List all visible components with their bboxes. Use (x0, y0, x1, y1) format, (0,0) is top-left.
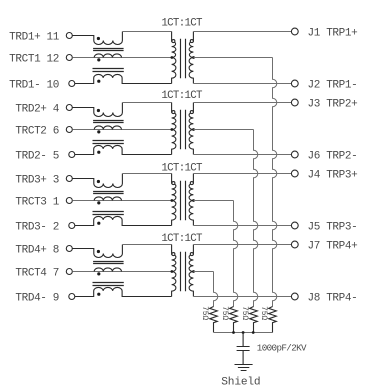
junction dot rail/R3 (252, 331, 255, 334)
phase dot choke winding a (97, 250, 100, 253)
choke core (lower pair) (93, 283, 124, 286)
node J2 terminal (291, 80, 298, 87)
phase dot choke winding a (97, 37, 100, 40)
terminal pin 1 (TRCT3) (66, 198, 72, 204)
wire TRD3+ pin to choke + choke winding a (TRD3+) (72, 174, 122, 188)
svg-text:J4 TRP3+: J4 TRP3+ (308, 170, 358, 182)
phase mark T4 primary (172, 253, 175, 256)
junction dot T4 primary centre tap (171, 270, 174, 273)
terminal pin 11 (TRD1+) (66, 33, 72, 39)
phase mark T1 secondary (190, 40, 193, 43)
svg-text:TRCT1 12: TRCT1 12 (9, 54, 59, 66)
wire termination bus rail (214, 332, 273, 334)
svg-text:TRD3- 2: TRD3- 2 (15, 222, 59, 234)
wire TRCT4 pin to transformer centre tap (72, 271, 171, 273)
junction dot T1 secondary centre tap (192, 56, 195, 59)
terminal pin 3 (TRD3+) (66, 176, 72, 182)
transformer T3 primary winding (172, 174, 176, 226)
resistor 75 ohm (ch2) (250, 307, 258, 333)
svg-text:J5 TRP3-: J5 TRP3- (308, 222, 358, 234)
terminal pin 10 (TRD1-) (69, 81, 75, 87)
svg-text:TRD4+ 8: TRD4+ 8 (15, 245, 59, 257)
terminal pin 6 (TRCT2) (66, 127, 72, 133)
choke core (lower pair) (93, 69, 124, 72)
phase dot choke winding b (97, 272, 100, 275)
transformer T4 primary winding (172, 245, 176, 297)
wire T4 secondary centre tap to termination bus (194, 271, 214, 273)
transformer T3 secondary winding (189, 174, 193, 226)
choke core (upper pair) (93, 121, 124, 123)
transformer T3 core (181, 181, 186, 221)
wire TRD1+ pin to choke + choke winding a (TRD1+) (72, 32, 122, 45)
wire centre-tap bus ch1 down to 75R resistor (with wire hops) (273, 58, 277, 307)
transformer T2 secondary winding (189, 103, 193, 155)
wire T1 secondary centre tap to termination bus (194, 57, 273, 59)
resistor 75 ohm (ch1) (269, 307, 277, 333)
phase dot choke winding c (97, 293, 100, 296)
choke winding b on TRCT3 line (94, 197, 121, 201)
wire centre-tap bus ch3 down to 75R resistor (with wire hops) (234, 201, 238, 307)
phase dot choke winding c (97, 222, 100, 225)
node J8 terminal (291, 293, 298, 300)
wire TRD4- pin to choke + choke winding c (TRD4-) (75, 287, 172, 296)
resistor 75 ohm (ch3) (230, 307, 238, 333)
phase dot choke winding c (97, 151, 100, 154)
phase mark T1 primary (172, 40, 175, 43)
phase mark T4 secondary (190, 253, 193, 256)
svg-text:TRCT3 1: TRCT3 1 (15, 197, 59, 209)
svg-text:TRD1+ 11: TRD1+ 11 (9, 32, 60, 44)
wire TRD3- pin to choke + choke winding c (TRD3-) (75, 216, 172, 225)
svg-text:75Ω: 75Ω (240, 306, 248, 320)
svg-text:1CT:1CT: 1CT:1CT (161, 163, 203, 175)
transformer T2 primary winding (172, 103, 176, 155)
svg-text:J8 TRP4-: J8 TRP4- (308, 293, 358, 305)
svg-text:75Ω: 75Ω (200, 306, 208, 320)
resistor 75 ohm (ch4) (210, 307, 218, 333)
svg-text:TRD3+ 3: TRD3+ 3 (15, 175, 59, 187)
wire TRCT2 pin to transformer centre tap (72, 129, 171, 131)
wire T2 secondary top to J3 (193, 102, 291, 104)
wire T3 secondary centre tap to termination bus (194, 200, 234, 202)
phase mark T3 secondary (190, 182, 193, 185)
transformer T1 secondary winding (189, 32, 193, 84)
wire T3 secondary top to J4 (193, 173, 291, 175)
phase dot choke winding a (97, 109, 100, 112)
svg-text:J3 TRP2+: J3 TRP2+ (308, 99, 358, 111)
svg-text:TRCT4 7: TRCT4 7 (15, 268, 59, 280)
choke core (upper pair) (93, 49, 124, 51)
svg-text:TRD1- 10: TRD1- 10 (9, 80, 59, 92)
wire T2 secondary centre tap to termination bus (194, 129, 254, 131)
svg-text:75Ω: 75Ω (259, 306, 267, 320)
wire top rail choke to transformer T2 primary (122, 102, 171, 104)
phase mark T3 primary (172, 182, 175, 185)
node J7 terminal (291, 241, 298, 248)
terminal pin 5 (TRD2-) (69, 152, 75, 158)
svg-text:TRCT2 6: TRCT2 6 (15, 126, 59, 138)
wire T1 secondary bottom to J2 (193, 83, 291, 85)
node J4 terminal (291, 170, 298, 177)
node J3 terminal (291, 99, 298, 106)
choke core (upper pair) (93, 192, 124, 194)
transformer T1 core (181, 39, 186, 79)
wire top rail choke to transformer T3 primary (122, 173, 171, 175)
transformer T2 core (181, 110, 186, 150)
wire T3 secondary bottom to J5 (193, 225, 291, 227)
junction dot T2 secondary centre tap (192, 128, 195, 131)
svg-text:Shield: Shield (221, 377, 260, 387)
choke core (lower pair) (93, 141, 124, 144)
terminal pin 9 (TRD4-) (69, 294, 75, 300)
junction dot rail/capacitor tap (242, 331, 245, 334)
svg-text:1000pF/2KV: 1000pF/2KV (257, 342, 307, 353)
terminal pin 4 (TRD2+) (66, 105, 72, 111)
svg-text:1CT:1CT: 1CT:1CT (161, 18, 203, 30)
wire centre-tap bus ch2 down to 75R resistor (with wire hops) (254, 130, 258, 307)
svg-text:1CT:1CT: 1CT:1CT (161, 233, 203, 245)
wire T1 secondary top to J1 (193, 31, 291, 33)
junction dot rail/R2 (232, 331, 235, 334)
terminal pin 2 (TRD3-) (69, 223, 75, 229)
phase dot choke winding c (97, 80, 100, 83)
svg-text:1CT:1CT: 1CT:1CT (161, 90, 203, 102)
junction dot T2 primary centre tap (171, 128, 174, 131)
wire top rail choke to transformer T4 primary (122, 244, 171, 246)
phase dot choke winding b (97, 201, 100, 204)
node J1 terminal (291, 28, 298, 35)
junction dot T3 secondary centre tap (192, 199, 195, 202)
choke winding b on TRCT4 line (94, 268, 121, 272)
svg-text:J7 TRP4+: J7 TRP4+ (308, 241, 358, 253)
choke core (lower pair) (93, 212, 124, 215)
wire TRD1- pin to choke + choke winding c (TRD1-) (75, 74, 172, 83)
svg-text:J6 TRP2-: J6 TRP2- (308, 151, 358, 163)
junction dot T3 primary centre tap (171, 199, 174, 202)
node J6 terminal (291, 151, 298, 158)
phase dot choke winding a (97, 180, 100, 183)
phase dot choke winding b (97, 130, 100, 133)
svg-text:J1 TRP1+: J1 TRP1+ (308, 28, 358, 40)
wire TRD2+ pin to choke + choke winding a (TRD2+) (72, 103, 122, 117)
wire TRD4+ pin to choke + choke winding a (TRD4+) (72, 245, 122, 258)
transformer T4 secondary winding (189, 245, 193, 297)
transformer T1 primary winding (172, 32, 176, 84)
svg-text:75Ω: 75Ω (220, 306, 228, 320)
svg-text:TRD2- 5: TRD2- 5 (15, 151, 59, 163)
wire TRCT3 pin to transformer centre tap (72, 200, 171, 202)
junction dot T1 primary centre tap (171, 56, 174, 59)
wire T4 secondary bottom to J8 (193, 296, 291, 298)
capacitor 1000pF/2KV (237, 333, 250, 365)
wire top rail choke to transformer T1 primary (122, 31, 171, 33)
ground symbol (Shield) (235, 365, 253, 371)
wire centre-tap bus ch4 down to 75R resistor (with wire hops) (214, 272, 218, 307)
phase dot choke winding b (97, 58, 100, 61)
svg-text:J2 TRP1-: J2 TRP1- (308, 80, 358, 92)
phase mark T2 secondary (190, 111, 193, 114)
terminal pin 8 (TRD4+) (66, 246, 72, 252)
wire T2 secondary bottom to J6 (193, 154, 291, 156)
wire T4 secondary top to J7 (193, 244, 291, 246)
terminal pin 12 (TRCT1) (66, 55, 72, 61)
node J5 terminal (291, 222, 298, 229)
svg-text:TRD4- 9: TRD4- 9 (15, 293, 59, 305)
svg-text:TRD2+ 4: TRD2+ 4 (15, 104, 59, 116)
wire TRD2- pin to choke + choke winding c (TRD2-) (75, 145, 172, 154)
choke winding b on TRCT1 line (94, 54, 121, 58)
choke winding b on TRCT2 line (94, 126, 121, 130)
wire TRCT1 pin to transformer centre tap (72, 57, 171, 59)
choke core (upper pair) (93, 262, 124, 264)
terminal pin 7 (TRCT4) (66, 269, 72, 275)
transformer T4 core (181, 252, 186, 291)
phase mark T2 primary (172, 111, 175, 114)
junction dot T4 secondary centre tap (192, 270, 195, 273)
